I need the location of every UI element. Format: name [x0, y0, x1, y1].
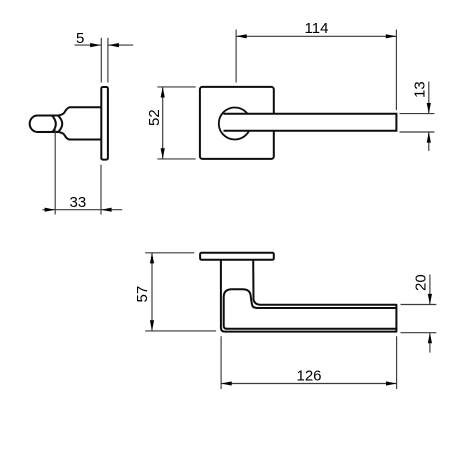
arrow 126 right [386, 381, 397, 385]
ext line left of 114 [235, 30, 237, 83]
svg-text:52: 52 [146, 109, 163, 126]
arrow 33 left [45, 208, 56, 212]
ext line left of 33 [54, 128, 56, 215]
ext line left of 126 [220, 336, 222, 389]
ext line bottom of 13 [400, 131, 435, 133]
lever inner top edge [258, 307, 396, 309]
ext line bottom of 52 [157, 158, 195, 160]
dimension 57 [145, 253, 216, 331]
arrow 52 top [161, 87, 165, 98]
arrow 52 bottom [161, 148, 165, 159]
dimension 5 [75, 38, 134, 83]
ext line right of 33 [100, 165, 102, 215]
dimension 13 [400, 82, 435, 152]
arrow 13 lower [427, 132, 431, 143]
ext line bottom of 57 [145, 330, 216, 332]
arrow 57 top [150, 253, 154, 264]
ext line bottom of 20 [401, 332, 437, 334]
arrow 13 upper [427, 103, 431, 114]
knob body outline (neck + taper + stadium cap) [30, 107, 102, 139]
square rose [200, 87, 274, 159]
lever bar (front) [224, 114, 397, 131]
rose plate (side view) [101, 87, 108, 160]
lever inner bottom edge [227, 328, 397, 330]
ext line top of 13 [400, 113, 435, 115]
dim line 20 lower [429, 333, 431, 352]
arrow 5 right [108, 43, 119, 47]
dimension 126 [221, 336, 397, 389]
ext line right of 5 [107, 38, 109, 83]
svg-text:20: 20 [413, 274, 430, 291]
arrow 5 left [90, 43, 101, 47]
ext line top of 20 [401, 304, 437, 306]
ext line top of 57 [145, 252, 194, 254]
ext line top of 52 [157, 86, 195, 88]
ext line right of 114 [395, 30, 397, 111]
lever inner edge (left+bottom dome contour) [224, 289, 258, 329]
knob sphere arc inner [52, 116, 56, 133]
rose circle [219, 108, 251, 140]
rose plate (profile) [200, 253, 274, 260]
dimension 52 [157, 87, 195, 159]
ext line left of 5 [100, 38, 102, 83]
svg-text:5: 5 [76, 30, 84, 47]
dim line 5 left [75, 44, 101, 46]
knob sphere arc outer [58, 116, 62, 132]
arrow 20 lower [428, 333, 432, 344]
dim line 114 [236, 35, 396, 37]
svg-text:13: 13 [412, 81, 429, 98]
svg-text:126: 126 [297, 368, 322, 385]
dim line 57 [151, 253, 153, 331]
arrow 126 left [221, 381, 232, 385]
dim line 52 [162, 87, 164, 159]
arrow 114 left [236, 34, 247, 38]
svg-text:33: 33 [70, 194, 87, 211]
svg-text:114: 114 [305, 20, 329, 37]
dim line 13 lower [428, 133, 430, 152]
dimension 33 [42, 128, 122, 215]
dim line 126 [221, 383, 397, 385]
dimension 114 [236, 30, 396, 111]
dim line 5 right [108, 44, 133, 46]
arrow 33 right [101, 208, 112, 212]
lever outer contour [221, 260, 397, 332]
dim line 33 [42, 209, 122, 211]
ext line right of 126 [396, 336, 398, 389]
dimension 20 [401, 275, 437, 353]
dim line 13 upper [428, 82, 430, 114]
dim line 20 upper [429, 275, 431, 305]
arrow 57 bottom [150, 320, 154, 331]
svg-text:57: 57 [134, 286, 151, 303]
arrow 114 right [386, 34, 397, 38]
arrow 20 upper [428, 294, 432, 305]
